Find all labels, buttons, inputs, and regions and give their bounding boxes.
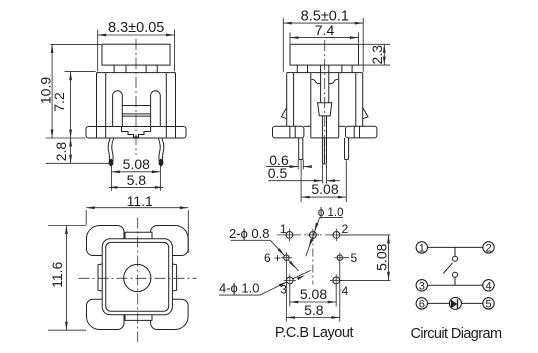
svg-text:4: 4 <box>342 284 349 298</box>
top view corner lobe top-left <box>87 226 125 256</box>
dimension 11.1 extension lines <box>85 210 87 225</box>
LED circle <box>449 297 461 309</box>
svg-text:2.3: 2.3 <box>369 45 385 65</box>
dimension 7.2 extension line top <box>65 71 96 73</box>
front view cap tab right <box>145 65 147 73</box>
front view 5.08 extension lines <box>110 166 112 191</box>
svg-text:7.2: 7.2 <box>51 92 67 112</box>
svg-text:5.08: 5.08 <box>300 286 327 302</box>
dimension 0.5 <box>268 180 322 182</box>
svg-text:5: 5 <box>485 298 491 310</box>
front view right terminal leg <box>162 138 164 165</box>
svg-text:5.8: 5.8 <box>304 302 324 318</box>
side view inner rib right <box>338 73 340 138</box>
front view housing outer walls <box>96 73 98 127</box>
side view dimension 5.08 <box>301 196 346 198</box>
front view housing inner walls <box>105 73 107 127</box>
pcb centerline vertical <box>312 233 314 285</box>
dimension 0.6 extension lines <box>297 160 299 170</box>
dimension 2.8 <box>70 138 72 163</box>
side view center block <box>311 137 339 139</box>
switch lower contact circle <box>453 272 458 277</box>
svg-text:6 +: 6 + <box>264 251 281 265</box>
circuit pin 1 <box>416 242 427 253</box>
svg-text:2: 2 <box>342 222 349 236</box>
svg-text:3: 3 <box>419 280 425 292</box>
side view flange left <box>273 126 304 138</box>
dimension 7.4 <box>290 37 359 39</box>
svg-text:P.C.B Layout: P.C.B Layout <box>275 325 354 341</box>
top view corner lobe top-right <box>151 226 189 256</box>
circuit pin 6 <box>416 298 427 309</box>
circuit pin 3 <box>416 280 427 291</box>
pcb dimension 5.8 <box>286 317 339 319</box>
front view centerline <box>135 39 137 155</box>
svg-text:11.6: 11.6 <box>49 261 65 287</box>
side view push button cap <box>290 44 359 65</box>
leader 2-phi 0.8 <box>270 240 284 255</box>
dimension 2.3 extension lines <box>359 43 390 45</box>
pcb dimension 5.08 horizontal <box>290 301 336 303</box>
side view cap foot left <box>296 65 298 73</box>
top view vertical centerline <box>137 218 139 343</box>
side view center LED pin <box>322 138 326 164</box>
side view 5.08 extension lines <box>300 161 302 203</box>
svg-text:5.08: 5.08 <box>311 181 338 197</box>
dimension 0.5 extension lines <box>321 165 323 184</box>
dimension 0.6 <box>266 166 298 168</box>
leader phi 1.0 <box>306 217 320 256</box>
pcb hole 6 <box>284 255 289 260</box>
front view flange wall lines <box>96 127 98 139</box>
pcb vertical 5.08 extension lines <box>340 234 390 236</box>
pcb 5.8 extension lines <box>285 262 287 322</box>
side view flange wall lines <box>289 126 291 138</box>
wire pin1 to pin2 <box>428 246 483 248</box>
dimension 10.9 extension line top <box>51 43 102 45</box>
top view horizontal centerline <box>79 277 197 279</box>
svg-text:Circuit Diagram: Circuit Diagram <box>411 326 502 342</box>
dimension 7.2 <box>70 72 72 138</box>
front view left terminal leg <box>108 138 110 165</box>
wire LED to pin5 <box>461 302 482 304</box>
front view center boss <box>122 127 151 138</box>
top view keycap outline <box>102 239 172 315</box>
svg-text:5.08: 5.08 <box>123 156 150 172</box>
dimension 2.3 <box>383 44 385 65</box>
side view body top edge <box>287 72 363 74</box>
svg-text:5.8: 5.8 <box>127 172 147 188</box>
pcb horizontal 5.08 extension lines <box>289 285 291 307</box>
side view right pin <box>345 138 349 160</box>
svg-text:4: 4 <box>485 280 491 292</box>
svg-text:0.5: 0.5 <box>268 165 288 181</box>
dimension 11.6 extension lines <box>48 225 86 227</box>
dimension 7.4 extension lines <box>289 32 291 43</box>
pcb pad number 5 <box>343 257 349 259</box>
pcb hole 4 <box>333 277 340 284</box>
switch lower contact stub <box>454 277 456 285</box>
pcb hole 5 <box>337 255 342 260</box>
side view plunger shaft <box>320 65 322 103</box>
top view top tab <box>125 232 152 239</box>
wire pin3 to pin4 <box>428 284 483 286</box>
switch lever <box>443 263 452 274</box>
svg-text:11.1: 11.1 <box>127 193 153 209</box>
pcb hole 3 <box>286 277 293 284</box>
side view body outer walls <box>286 73 288 127</box>
pcb hole center phi1.0 <box>310 232 317 239</box>
switch upper contact stub <box>454 247 456 256</box>
pcb dimension 5.08 vertical <box>388 235 390 281</box>
svg-text:8.3±0.05: 8.3±0.05 <box>108 20 164 36</box>
front view right contact post <box>151 91 161 127</box>
leader 4-phi 1.0 <box>260 282 287 295</box>
svg-text:5: 5 <box>350 251 357 265</box>
dimension 2.8 extension line flange bottom <box>46 137 86 139</box>
dimension 2.8 extension line leg tip <box>46 162 110 164</box>
front view housing top edge <box>97 72 176 74</box>
svg-text:1: 1 <box>419 242 425 254</box>
svg-text:1: 1 <box>280 222 287 236</box>
top view corner lobe bottom-left <box>87 299 125 329</box>
side view flange right <box>346 126 377 138</box>
LED cathode bar <box>457 299 459 309</box>
side view body inner walls <box>293 73 295 127</box>
top view center circle <box>124 264 151 291</box>
pcb hole 1 <box>286 232 293 239</box>
LED triangle <box>451 300 458 309</box>
circuit pin 2 <box>483 242 494 253</box>
top view keycap inner face <box>106 242 169 311</box>
dimension 8.3±0.05 <box>98 34 175 36</box>
wire pin6 to LED <box>428 302 450 304</box>
top view left tab <box>98 264 102 291</box>
side view LED legs <box>321 116 323 138</box>
pcb centerline horizontal <box>277 234 351 236</box>
top view right tab <box>172 264 176 291</box>
dimension 10.9 <box>51 44 53 138</box>
side view cap foot right <box>341 65 343 73</box>
svg-text:4-ϕ 1.0: 4-ϕ 1.0 <box>219 281 260 296</box>
front view dimension 5.08 <box>111 171 160 173</box>
svg-text:6: 6 <box>419 298 425 310</box>
side view left pin <box>299 138 303 160</box>
dimension 8.5±0.1 <box>283 22 363 24</box>
dimension 8.5±0.1 extension lines <box>282 18 284 72</box>
svg-text:2.8: 2.8 <box>53 142 69 162</box>
front view contact band <box>122 113 150 115</box>
side view LED lens <box>318 103 332 116</box>
side view centerline <box>324 40 326 160</box>
top view corner lobe bottom-right <box>151 299 189 329</box>
circuit pin 5 <box>483 298 494 309</box>
dimension 8.3±0.05 extension lines <box>97 30 99 72</box>
top view bottom tab <box>125 315 152 321</box>
side view latch wing left <box>281 108 286 119</box>
side view inner rib left <box>310 73 312 138</box>
circuit pin 4 <box>483 280 494 291</box>
pcb hole 2 <box>333 232 340 239</box>
dimension 11.1 <box>86 207 188 209</box>
side view latch wing right <box>363 108 368 119</box>
svg-text:2-ϕ 0.8: 2-ϕ 0.8 <box>229 226 270 241</box>
front view mounting flange <box>86 127 186 139</box>
switch upper contact circle <box>453 256 458 261</box>
front view contact crossbar <box>122 105 150 107</box>
front view push button cap <box>102 44 170 65</box>
front view dimension 5.8 <box>109 186 163 188</box>
dimension 11.6 <box>65 226 67 331</box>
front view left contact post <box>113 91 123 127</box>
front view cap tab left <box>113 65 115 73</box>
svg-text:2: 2 <box>485 242 491 254</box>
svg-text:7.4: 7.4 <box>315 22 335 38</box>
svg-text:5.08: 5.08 <box>373 243 389 270</box>
